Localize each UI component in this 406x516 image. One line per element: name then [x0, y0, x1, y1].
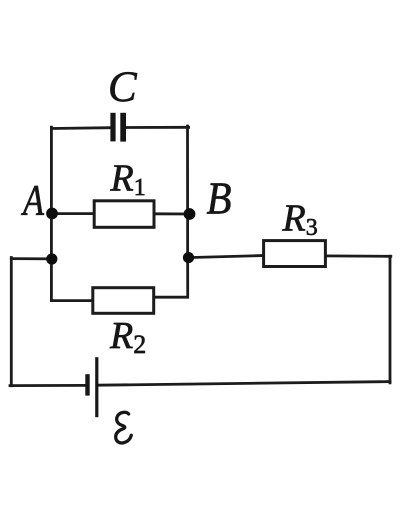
- wire: top segment from node-A column to capacitor left plate: [51, 126, 111, 130]
- svg-text:R3: R3: [282, 198, 318, 242]
- wire: outer-right vertical up to R3 row: [389, 256, 392, 383]
- right junction node dot (lower row): [183, 252, 194, 263]
- svg-text:B: B: [207, 174, 232, 224]
- resistor R2 body: [93, 288, 154, 314]
- wire: top segment from capacitor right plate to node-B column: [126, 126, 189, 129]
- svg-text:R2: R2: [109, 315, 146, 359]
- wire: outer-left vertical down to battery row: [10, 258, 13, 386]
- left junction node dot (lower row): [46, 253, 57, 264]
- svg-text:A: A: [20, 177, 44, 224]
- capacitor C right plate: [120, 113, 126, 142]
- battery negative plate (short thick): [85, 374, 89, 395]
- resistor R1 body: [94, 201, 154, 228]
- wire: outer-left horizontal at junction row: [11, 257, 52, 260]
- wire: right column vertical (top wire through node B down to R2 branch): [154, 126, 188, 297]
- wire: bottom-right from battery positive plate to outer right corner: [97, 382, 390, 386]
- label EMF script-E: [113, 412, 132, 444]
- capacitor C left plate: [110, 113, 115, 142]
- node A junction dot: [46, 208, 58, 220]
- wire: right junction node to R3 left lead: [188, 256, 264, 258]
- wire: bottom-left from outer corner to battery negative plate: [10, 384, 86, 387]
- resistor R3 body: [264, 241, 326, 267]
- node B junction dot: [184, 208, 196, 220]
- wire: left column vertical (top wire through node A down to R2 branch): [51, 127, 93, 300]
- svg-text:C: C: [108, 64, 138, 111]
- battery positive plate (long thin): [95, 357, 98, 417]
- svg-text:R1: R1: [110, 157, 146, 201]
- wire: R3 right lead to outer right corner: [325, 254, 391, 257]
- wire: resistor R1 to node B: [154, 212, 191, 215]
- wire: node A to resistor R1: [51, 212, 95, 215]
